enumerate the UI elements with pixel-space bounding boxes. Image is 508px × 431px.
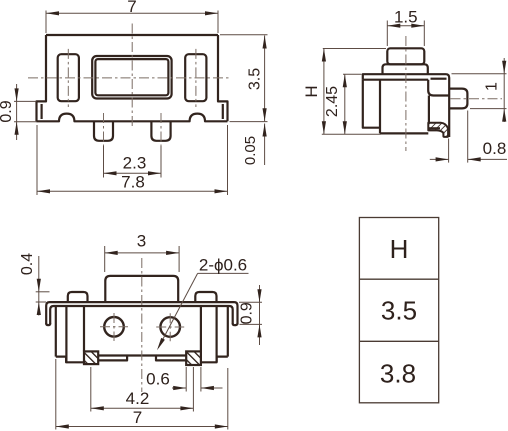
side view peg centerline xyxy=(451,98,503,100)
dimension 0.6 (terminal width) xyxy=(146,367,222,392)
dimension 0.9 (hook height, right side) xyxy=(239,285,262,345)
top view central window inner rect xyxy=(95,59,168,95)
top view vertical centerline xyxy=(131,24,133,127)
side view plate bottom line xyxy=(363,79,428,81)
top view right terminal centerline xyxy=(195,49,197,107)
svg-text:0.05: 0.05 xyxy=(242,136,259,165)
top view body right side with flange step xyxy=(218,35,228,121)
front view bottom recess line xyxy=(98,354,127,356)
dimension 2.3 (peg spacing) xyxy=(104,146,162,178)
dimension H (overall height) xyxy=(302,49,386,135)
front view body bottom profile right xyxy=(201,357,228,363)
side view body right edge xyxy=(428,96,430,124)
svg-text:2.45: 2.45 xyxy=(324,86,341,117)
dimension 7.8 (overall width with flanges) xyxy=(37,125,228,195)
svg-text:0.9: 0.9 xyxy=(239,302,256,324)
top view left peg centerline xyxy=(103,113,105,148)
side view clip inner line xyxy=(431,78,447,80)
dimension 1 (peg height, right side) xyxy=(452,58,507,122)
side view top plate and right edge xyxy=(363,74,449,137)
dimension 0.4 (tab height, left side) xyxy=(19,253,49,316)
front view left hook bottom xyxy=(46,323,50,325)
front view right column xyxy=(216,306,218,362)
front view bottom recess line right xyxy=(156,354,186,356)
top view left peg xyxy=(94,121,113,141)
side view vertical centerline xyxy=(405,36,407,151)
svg-text:3.5: 3.5 xyxy=(381,296,417,326)
front view right terminal (hatched) xyxy=(186,351,201,365)
front view right hole crosshair xyxy=(156,326,184,328)
dimension 1.5 (button width) xyxy=(387,8,424,47)
dimension 7 (front view body width) xyxy=(56,359,228,430)
dimension 2.45 (body height) xyxy=(324,74,361,134)
dimension 4.2 (terminal spacing) xyxy=(91,367,194,412)
front view right column inner edge xyxy=(200,306,202,351)
front view left hole crosshair vertical xyxy=(113,313,115,341)
svg-text:7: 7 xyxy=(127,0,136,16)
top view left flange tick xyxy=(40,104,42,119)
top view body left side with flange step xyxy=(37,35,47,121)
side view bottom extension line xyxy=(322,133,381,135)
svg-text:1.5: 1.5 xyxy=(394,8,418,27)
side view button xyxy=(387,48,424,64)
front view stem xyxy=(105,276,178,302)
top view central window outer rect xyxy=(92,56,171,99)
front view right bent-up tab xyxy=(195,292,216,302)
side view body bottom edge xyxy=(380,132,428,134)
svg-text:2-ϕ0.6: 2-ϕ0.6 xyxy=(199,256,247,275)
front view flange sheet inner line xyxy=(50,306,233,324)
svg-text:H: H xyxy=(390,234,409,264)
svg-text:3.8: 3.8 xyxy=(380,359,416,389)
svg-text:0.9: 0.9 xyxy=(0,100,15,122)
front view vertical centerline xyxy=(141,258,143,392)
top view right flange tick xyxy=(222,104,224,119)
svg-text:2.3: 2.3 xyxy=(123,154,147,173)
front view left terminal (hatched) xyxy=(84,351,98,364)
front view left column inner edge xyxy=(83,306,85,351)
top view left terminal rectangle xyxy=(58,54,79,101)
svg-text:3: 3 xyxy=(137,232,146,251)
svg-text:7.8: 7.8 xyxy=(121,173,145,192)
top view bottom edge with two half-circle notches xyxy=(37,114,228,122)
svg-text:7: 7 xyxy=(133,408,142,427)
side view right clip with rounded bottom xyxy=(428,80,449,96)
front view body left edge xyxy=(55,306,57,357)
dimension 3.5 (top view height, right side) xyxy=(220,35,268,122)
svg-text:3.5: 3.5 xyxy=(247,68,264,90)
top view right peg xyxy=(151,121,170,141)
dimension 0.9 (flange height, left side) xyxy=(0,84,37,140)
svg-text:1: 1 xyxy=(484,82,501,91)
side view left block xyxy=(363,80,380,128)
svg-text:0.8: 0.8 xyxy=(483,139,507,158)
dimension 3 (stem width) xyxy=(105,232,179,273)
front view right hook bottom xyxy=(233,323,238,325)
front view flange sheet outer line with hooks xyxy=(46,302,237,324)
front view bottom center profile xyxy=(98,356,186,361)
front view left bent-up tab xyxy=(68,292,88,302)
dimension 7 (top view width) xyxy=(46,0,218,33)
top view horizontal centerline xyxy=(28,77,229,79)
dimension 0.8 (foot offset) xyxy=(430,111,507,163)
front view body bottom profile xyxy=(56,357,84,363)
table frame xyxy=(359,218,438,403)
side view side peg xyxy=(449,89,467,109)
top view right peg centerline xyxy=(160,113,162,148)
svg-text:H: H xyxy=(302,85,321,97)
front view right hole crosshair vertical xyxy=(169,313,171,341)
side view body left edge xyxy=(379,80,381,134)
front view left hole xyxy=(104,317,124,337)
front view right hole xyxy=(160,317,180,337)
side view bent solder foot (hatched) xyxy=(428,123,448,137)
front view body right edge xyxy=(227,306,229,357)
dimension 0.05 (seating plane, right side) xyxy=(242,124,267,166)
svg-text:0.6: 0.6 xyxy=(146,370,170,389)
top view left terminal centerline xyxy=(67,49,69,107)
label 2-phi0.6 leader line xyxy=(155,256,248,352)
side view button step xyxy=(383,64,428,74)
top view body top edge xyxy=(46,34,218,36)
front view left column xyxy=(65,306,67,362)
top view right terminal rectangle xyxy=(185,54,206,101)
side view foot inner line xyxy=(428,127,440,129)
svg-text:4.2: 4.2 xyxy=(126,389,150,408)
front view left hole crosshair xyxy=(100,326,128,328)
svg-text:0.4: 0.4 xyxy=(19,253,36,275)
